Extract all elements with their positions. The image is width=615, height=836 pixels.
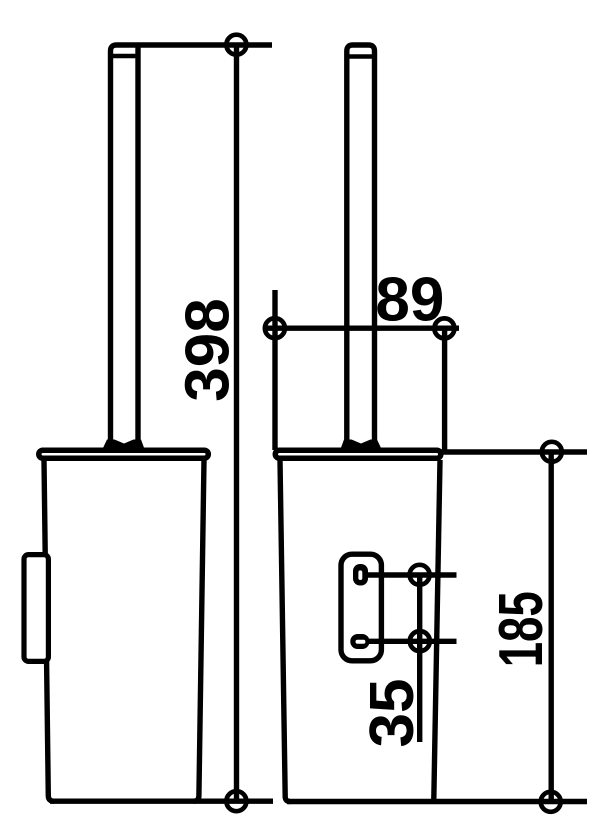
dimension 35: lower circle (410, 631, 430, 651)
left view: handle right edge (135, 48, 140, 442)
left view: brush handle outline (111, 45, 273, 441)
front view: cup bottom / dimension extension line (287, 799, 587, 804)
svg-text:89: 89 (375, 266, 444, 335)
front view: handle collar (341, 440, 382, 450)
front view: lower keyhole slot (350, 634, 369, 649)
dimension 35: lower hole line (366, 639, 457, 644)
dimension 89: horizontal line (266, 326, 459, 331)
left view: handle collar (103, 440, 145, 450)
dimension 35: vertical line (417, 575, 422, 742)
dimension 185: top line (441, 449, 587, 454)
svg-text:35: 35 (358, 679, 427, 748)
left view: cup left edge (44, 460, 54, 801)
dimension 89: left extension line (272, 290, 277, 450)
left view: handle cap line (108, 54, 141, 59)
dimension 35: upper circle (410, 565, 430, 585)
dimension 185: bottom circle (541, 792, 561, 812)
dimension 398: top circle (226, 35, 246, 55)
dimension 185: top circle (542, 442, 562, 462)
svg-text:398: 398 (174, 298, 243, 401)
front view: cup left edge (280, 460, 290, 802)
dimension 89: right extension line (442, 328, 447, 452)
dimension 89: left circle (265, 318, 285, 338)
front view: handle cap line (345, 54, 378, 59)
svg-text:185: 185 (487, 591, 556, 667)
left view: cup right edge (194, 460, 205, 801)
dimension 35: upper hole line (366, 572, 457, 577)
dimension 398: vertical line (234, 45, 239, 801)
left view: wall bracket (24, 555, 48, 662)
left view: lid rim bar (39, 450, 209, 458)
front view: cup right edge (434, 460, 440, 800)
front view: brush handle outline (347, 45, 375, 441)
left view: cup bottom / dimension extension line (50, 799, 273, 804)
dimension 398: bottom circle (226, 791, 246, 811)
dimension 89: right circle (434, 318, 454, 338)
front view: lid rim bar (275, 450, 441, 458)
front view: upper keyhole slot (353, 564, 368, 586)
dimension 185: vertical line (549, 452, 554, 802)
front view: wall plate (341, 554, 381, 661)
